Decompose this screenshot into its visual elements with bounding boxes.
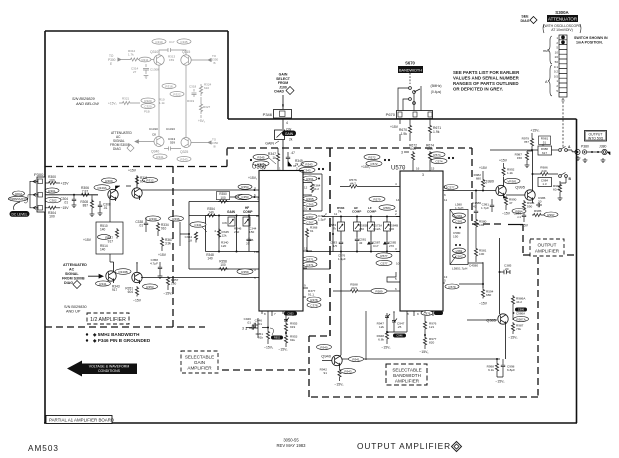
- svg-text:3: 3: [242, 327, 244, 331]
- svg-text:−15V₁: −15V₁: [381, 346, 391, 350]
- svg-text:−15V₁: −15V₁: [264, 346, 274, 350]
- svg-text:.18: .18: [188, 239, 193, 243]
- svg-text:S/N B029830: S/N B029830: [64, 305, 87, 309]
- capacitor C347: [286, 151, 295, 166]
- wire elbow output box: [508, 224, 523, 226]
- svg-text:91.1: 91.1: [308, 293, 314, 297]
- svg-text:C1313: C1313: [166, 127, 175, 131]
- svg-text:C582: C582: [455, 254, 463, 258]
- svg-text:6.8k: 6.8k: [378, 338, 384, 342]
- node U570 pin numbers bottom: [407, 312, 428, 316]
- svg-text:.01: .01: [103, 206, 108, 210]
- node U350 left pins: [254, 186, 256, 280]
- node R361 oval pair: [303, 176, 320, 181]
- resistor R357: [163, 276, 178, 296]
- svg-text:7k: 7k: [333, 227, 337, 231]
- svg-text:R952: R952: [274, 336, 281, 340]
- node see diag callout: [521, 15, 537, 24]
- node TP300 oval: [45, 188, 59, 193]
- svg-text:P670: P670: [386, 112, 396, 117]
- svg-text:1: 1: [254, 250, 256, 254]
- wire filter out junction: [459, 263, 484, 288]
- svg-text:1.7μF: 1.7μF: [481, 206, 489, 210]
- svg-text:INTO 50Ω: INTO 50Ω: [588, 136, 604, 140]
- svg-text:−15V: −15V: [133, 299, 142, 303]
- svg-text:C17: C17: [373, 244, 379, 248]
- wire U570 left stubs: [256, 216, 400, 252]
- svg-text:R322: R322: [173, 92, 181, 96]
- svg-text:1.5μF: 1.5μF: [318, 218, 326, 222]
- node R359 oval: [237, 269, 253, 274]
- svg-text:5: 5: [444, 279, 446, 283]
- node U570 left pins: [395, 182, 397, 291]
- svg-text:R572: R572: [368, 155, 376, 159]
- node J300A compensation label: [8, 191, 30, 203]
- resistor R576: [340, 178, 400, 188]
- node grey R320 pills: [141, 98, 165, 114]
- svg-text:150: 150: [517, 156, 522, 160]
- node grey bottom labels: [149, 127, 176, 145]
- wire gain select to P346: [282, 95, 284, 171]
- resistor R674: [426, 144, 434, 172]
- svg-text:+15V: +15V: [128, 169, 137, 173]
- svg-text:0.5: 0.5: [554, 74, 559, 78]
- svg-text:(0.4μs): (0.4μs): [431, 90, 442, 94]
- svg-text:919: 919: [290, 325, 295, 329]
- svg-text:+15V₁: +15V₁: [530, 129, 540, 133]
- junction dots mid: [332, 216, 388, 253]
- resistor R670: [390, 119, 412, 142]
- svg-text:9: 9: [304, 284, 306, 288]
- node DC LEVEL label: [10, 202, 30, 217]
- svg-text:+15V: +15V: [390, 125, 399, 129]
- svg-text:1: 1: [556, 79, 558, 83]
- node gain hf comp headers: [227, 206, 253, 214]
- svg-text:R320: R320: [144, 99, 152, 103]
- resistor R948: [377, 322, 392, 350]
- resistor R304: [45, 206, 69, 219]
- svg-text:RANGES OF PARTS OUTLINED: RANGES OF PARTS OUTLINED: [453, 81, 519, 86]
- svg-text:250: 250: [359, 227, 364, 231]
- svg-text:L582: L582: [456, 249, 463, 253]
- node R943 oval: [341, 368, 356, 373]
- svg-text:A: A: [568, 145, 571, 149]
- svg-text:C577: C577: [447, 185, 455, 189]
- svg-text:14: 14: [396, 198, 400, 202]
- svg-text:C341: C341: [194, 223, 202, 227]
- svg-text:4.7μF: 4.7μF: [150, 262, 158, 266]
- svg-text:R319: R319: [187, 99, 195, 103]
- svg-text:SIGNAL: SIGNAL: [65, 272, 79, 276]
- node pin5 oval: [443, 279, 459, 290]
- svg-text:R577: R577: [380, 254, 388, 258]
- node R574 ovals right of U570 top: [429, 152, 454, 164]
- svg-text:P1B: P1B: [144, 110, 150, 114]
- wire input signal: [45, 194, 98, 196]
- capacitor C986: [536, 196, 546, 207]
- svg-text:2: 2: [296, 167, 298, 171]
- node parts list note: [453, 70, 520, 92]
- transistor Q385: [467, 314, 508, 359]
- node C986A ovals: [511, 295, 528, 322]
- node R365 ovals: [303, 196, 317, 210]
- svg-text:DC LEVEL: DC LEVEL: [12, 212, 28, 216]
- svg-text:1: 1: [279, 167, 281, 171]
- svg-text:140: 140: [100, 248, 106, 252]
- svg-text:15: 15: [431, 167, 435, 171]
- trimmer C344: [243, 217, 257, 234]
- svg-text:+15V₁: +15V₁: [361, 165, 371, 169]
- node +15V labels scattered: [248, 165, 424, 180]
- svg-text:C986A: C986A: [516, 312, 525, 316]
- svg-text:R353: R353: [146, 285, 154, 289]
- svg-text:10: 10: [304, 207, 308, 211]
- svg-text:R341: R341: [156, 155, 164, 159]
- svg-text:917: 917: [108, 240, 114, 244]
- resistor R986: [532, 166, 559, 176]
- svg-text:7: 7: [274, 312, 276, 316]
- node R367 ovals: [303, 214, 317, 225]
- svg-text:AND BELOW: AND BELOW: [75, 102, 99, 106]
- trimmer R346A: [222, 217, 242, 234]
- resistor R672: [401, 144, 417, 172]
- wire into left node: [180, 222, 189, 246]
- transistor Q325 grey: [180, 138, 191, 155]
- resistor R340: [221, 241, 229, 249]
- node grey attenuated note: [110, 131, 132, 151]
- svg-text:C1310: C1310: [149, 127, 158, 131]
- resistor R992: [499, 159, 515, 177]
- node R941 oval: [349, 356, 364, 361]
- svg-text:−15V₁: −15V₁: [508, 336, 518, 340]
- connector J380: [598, 145, 610, 163]
- wire Q340A collector to Q350A: [116, 186, 132, 189]
- resistor R300: [45, 175, 69, 186]
- svg-text:R321: R321: [122, 97, 130, 101]
- svg-text:R327: R327: [203, 105, 211, 109]
- node R353 oval: [143, 284, 158, 289]
- node mA brace: [543, 36, 552, 96]
- node R312 oval: [143, 177, 158, 182]
- svg-text:121: 121: [429, 325, 434, 329]
- svg-text:R330: R330: [149, 217, 157, 221]
- node grey +15V feed: [108, 97, 140, 106]
- node attenuated ac signal callout: [62, 263, 103, 289]
- capacitor C304: [60, 194, 76, 208]
- resistor R343: [112, 285, 120, 293]
- wire U570 output: [443, 190, 496, 192]
- wire Q350A emitter to U350: [141, 189, 259, 191]
- svg-text:1/5: 1/5: [333, 244, 338, 248]
- svg-text:.01: .01: [247, 321, 252, 325]
- wire Q350B to U350 lower: [141, 277, 259, 279]
- node R997 oval: [544, 212, 558, 217]
- svg-text:R579: R579: [373, 197, 381, 201]
- svg-text:C345: C345: [180, 40, 188, 44]
- capacitor C308: [98, 201, 111, 216]
- svg-text:C574: C574: [435, 159, 443, 163]
- switch S300A title: [543, 10, 581, 33]
- resistor R334: [156, 222, 168, 236]
- svg-text:R318: R318: [165, 84, 173, 88]
- resistor R979: [522, 129, 541, 152]
- svg-text:3: 3: [395, 247, 397, 251]
- resistor R580: [474, 218, 486, 247]
- capacitor C991: [481, 199, 494, 212]
- svg-text:GAIN: GAIN: [194, 360, 205, 365]
- svg-text:CONDITIONS: CONDITIONS: [98, 369, 121, 373]
- wire Q385 collector feed: [499, 238, 501, 314]
- svg-text:559: 559: [170, 141, 175, 145]
- resistor R996: [522, 200, 534, 211]
- svg-text:Q340A: Q340A: [97, 186, 106, 190]
- svg-text:−15V₁: −15V₁: [278, 348, 288, 352]
- svg-text:AMPLIFIER: AMPLIFIER: [187, 366, 212, 371]
- capacitor C996: [514, 212, 529, 228]
- svg-text:6.1k: 6.1k: [488, 368, 494, 372]
- node R309 oval: [102, 178, 117, 183]
- wire Q940 to Q385: [342, 358, 500, 360]
- node L585 label: [452, 264, 478, 271]
- svg-text:GAIN: GAIN: [265, 142, 274, 146]
- svg-text:100: 100: [49, 179, 55, 183]
- svg-text:140: 140: [207, 257, 213, 261]
- node grey sn note: [72, 97, 99, 106]
- svg-text:OR DEPICTED IN GREY.: OR DEPICTED IN GREY.: [453, 87, 503, 92]
- svg-text:9: 9: [417, 312, 419, 316]
- wire network frame: [189, 202, 259, 270]
- svg-text:R987A: R987A: [516, 317, 525, 321]
- resistor R367: [158, 237, 173, 257]
- resistor R953: [278, 332, 297, 352]
- svg-text:GAIN: GAIN: [285, 132, 294, 136]
- node S/N note: [64, 305, 87, 314]
- resistor R364: [310, 183, 320, 194]
- svg-text:R345: R345: [257, 155, 265, 159]
- svg-text:3: 3: [422, 173, 424, 177]
- svg-text:R311: R311: [142, 58, 149, 62]
- svg-text:+15V: +15V: [83, 238, 92, 242]
- trimmer R584B: [384, 222, 399, 231]
- wire dashed block boundaries: [45, 148, 575, 397]
- wire top rail: [490, 150, 538, 185]
- svg-text:COMPENSATION: COMPENSATION: [8, 198, 28, 201]
- svg-text:S/N B029829: S/N B029829: [72, 97, 95, 101]
- resistor R988: [553, 181, 566, 201]
- svg-text:13: 13: [444, 275, 448, 279]
- node R584 oval top: [379, 205, 397, 213]
- svg-text:AMPLIFIER: AMPLIFIER: [395, 379, 420, 384]
- wire U350 bottom pins: [249, 311, 293, 338]
- svg-text:SEE PARTS LIST FOR EARLIER: SEE PARTS LIST FOR EARLIER: [453, 70, 520, 75]
- svg-text:C320: C320: [144, 104, 152, 108]
- svg-text:Q325: Q325: [180, 150, 188, 154]
- svg-text:C343: C343: [303, 168, 311, 172]
- svg-text:4: 4: [214, 229, 216, 233]
- svg-text:E: E: [110, 62, 112, 66]
- svg-text:R943: R943: [344, 369, 352, 373]
- svg-text:100: 100: [389, 227, 394, 231]
- resistor R306: [80, 186, 98, 196]
- resistor R998: [487, 358, 503, 377]
- svg-text:C302: C302: [49, 198, 57, 202]
- svg-text:60.4: 60.4: [553, 188, 559, 192]
- capacitor C946: [242, 319, 262, 331]
- resistor R345: [214, 228, 229, 239]
- svg-text:DIAG: DIAG: [521, 19, 530, 23]
- svg-text:R309: R309: [105, 179, 113, 183]
- svg-text:OUTPUT: OUTPUT: [538, 243, 557, 248]
- svg-text:COMP: COMP: [352, 210, 361, 214]
- svg-text:FROM S300B: FROM S300B: [62, 277, 85, 281]
- node R341 oval: [96, 281, 111, 286]
- svg-text:27: 27: [133, 70, 137, 74]
- svg-text:OUTPUT AMPLIFIER: OUTPUT AMPLIFIER: [357, 441, 451, 451]
- svg-text:102: 102: [479, 223, 484, 227]
- node R348a ovals right: [298, 161, 324, 172]
- svg-text:−15V₁: −15V₁: [419, 350, 429, 354]
- wire cross to U570 block: [307, 212, 337, 252]
- transistor Q380: [484, 177, 506, 198]
- svg-text:74k: 74k: [516, 327, 521, 331]
- svg-text:R353: R353: [241, 185, 249, 189]
- node R353 C353 ovals on input wires: [230, 184, 259, 199]
- svg-text:100: 100: [220, 196, 226, 200]
- potentiometer GAIN R346: [265, 128, 296, 146]
- svg-text:n1: n1: [518, 215, 522, 219]
- wire link verticals: [110, 262, 137, 264]
- divider network R510 R517 R514: [83, 196, 123, 263]
- svg-text:DIAG: DIAG: [113, 147, 121, 151]
- svg-text:AMPLIFIER: AMPLIFIER: [535, 249, 560, 254]
- wire grey emitter columns: [159, 65, 186, 137]
- capacitor C344b: [185, 232, 198, 243]
- svg-text:+15V: +15V: [61, 182, 70, 186]
- resistor R977: [419, 336, 436, 354]
- svg-text:R336: R336: [172, 217, 180, 221]
- svg-text:J380: J380: [599, 145, 606, 149]
- node OUTPUT INTO 50 box: [585, 131, 607, 142]
- svg-text:C577: C577: [380, 261, 388, 265]
- node C577b oval: [444, 185, 458, 198]
- svg-text:R584: R584: [383, 206, 391, 210]
- resistor R588: [333, 283, 372, 293]
- svg-text:C4580: C4580: [469, 264, 478, 268]
- svg-text:+15V: +15V: [158, 253, 167, 257]
- wire mechanical link S300A-S300B: [562, 98, 564, 148]
- wire to P380: [572, 151, 577, 153]
- svg-text:12: 12: [444, 186, 448, 190]
- svg-text:R941: R941: [352, 357, 360, 361]
- resistor R350: [217, 192, 230, 204]
- node grey R318 oval: [162, 84, 176, 89]
- svg-text:+15V₂: +15V₂: [108, 102, 118, 106]
- svg-text:C581: C581: [455, 219, 463, 223]
- svg-text:0.2: 0.2: [554, 70, 559, 74]
- node partial A1 amplifier board label: [46, 416, 114, 424]
- svg-text:CW: CW: [222, 221, 227, 225]
- node C377 oval: [512, 209, 526, 214]
- node VR381 oval: [504, 178, 520, 183]
- svg-text:.01: .01: [64, 201, 69, 205]
- connector P300: [30, 172, 45, 212]
- resistor R976: [423, 311, 436, 336]
- switch S300A contact column: [559, 35, 567, 97]
- wire trim rails: [333, 217, 400, 252]
- svg-text:604: 604: [128, 290, 134, 294]
- svg-text:8: 8: [264, 312, 266, 316]
- node C953 pill: [284, 312, 297, 316]
- svg-text:C365: C365: [306, 202, 314, 206]
- svg-text:C8: C8: [152, 133, 156, 137]
- svg-text:C17: C17: [169, 40, 175, 44]
- node selectable gain amplifier label: [181, 351, 218, 373]
- transistor Q350A: [132, 176, 142, 200]
- svg-text:R371: R371: [306, 257, 314, 261]
- svg-text:50: 50: [555, 60, 559, 64]
- svg-text:◆ P346 PIN B GROUNDED: ◆ P346 PIN B GROUNDED: [92, 338, 151, 343]
- node diamond symbol: [452, 442, 462, 452]
- wire U350 right column rail: [303, 174, 322, 268]
- svg-text:150: 150: [249, 230, 254, 234]
- svg-text:0.1: 0.1: [554, 65, 559, 69]
- svg-text:COMP: COMP: [243, 210, 253, 214]
- resistor R308: [80, 196, 94, 217]
- svg-text:C946: C946: [396, 334, 403, 338]
- svg-text:2: 2: [556, 41, 558, 45]
- svg-text:B: B: [282, 104, 285, 108]
- node R577 ovals lower: [376, 253, 400, 266]
- svg-text:AC: AC: [69, 268, 75, 272]
- svg-text:P300: P300: [34, 172, 44, 177]
- resistor R368: [305, 226, 317, 253]
- svg-text:−15V₂: −15V₂: [163, 292, 173, 296]
- node C946B pill: [393, 334, 406, 338]
- node R940 oval: [317, 344, 332, 349]
- node R952 pill: [270, 328, 283, 340]
- svg-text:C378: C378: [310, 303, 318, 307]
- node R980 box: [538, 146, 558, 155]
- wire grey attenuated arrow: [135, 140, 154, 143]
- svg-text:2: 2: [325, 212, 327, 216]
- svg-text:160: 160: [171, 282, 176, 286]
- svg-text:ATTENUATOR: ATTENUATOR: [548, 16, 577, 21]
- svg-text:680: 680: [486, 293, 491, 297]
- svg-text:R343: R343: [305, 162, 313, 166]
- svg-text:C310: C310: [155, 40, 163, 44]
- capacitor C946: [244, 317, 258, 331]
- svg-text:250: 250: [234, 230, 239, 234]
- svg-text:91: 91: [310, 229, 314, 233]
- svg-text:CHAD: CHAD: [274, 90, 285, 94]
- svg-text:C371: C371: [306, 263, 314, 267]
- trimmer R583B: [354, 222, 369, 231]
- svg-text:R574: R574: [433, 153, 441, 157]
- transistor Q315 grey: [181, 50, 191, 65]
- svg-text:Q940: Q940: [321, 354, 332, 359]
- inductor L580 box: [450, 203, 468, 265]
- svg-text:ATTENUATED: ATTENUATED: [63, 263, 87, 267]
- svg-text:+15V₁: +15V₁: [248, 176, 258, 180]
- svg-text:5: 5: [254, 276, 256, 280]
- svg-text:R343: R343: [180, 157, 188, 161]
- svg-text:680: 680: [476, 177, 481, 181]
- svg-text:91k: 91k: [290, 338, 295, 342]
- trimmer capacitor C945: [377, 313, 390, 329]
- svg-text:Q340: Q340: [151, 150, 159, 154]
- node R371 ovals: [303, 257, 317, 268]
- svg-text:−15V: −15V: [502, 212, 511, 216]
